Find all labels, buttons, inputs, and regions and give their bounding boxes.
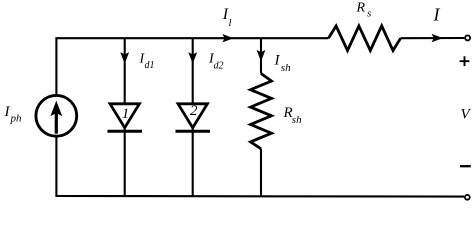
svg-text:1: 1 bbox=[122, 106, 130, 122]
wire diode branch 1 anode bbox=[124, 38, 126, 104]
svg-text:R: R bbox=[356, 1, 366, 16]
diode D1 bbox=[110, 104, 139, 128]
svg-text:I: I bbox=[433, 5, 441, 25]
terminal node top bbox=[465, 35, 470, 40]
svg-text:I: I bbox=[274, 52, 281, 68]
wire shunt branch top bbox=[260, 38, 262, 73]
arrow I output bbox=[432, 34, 443, 42]
svg-text:sh: sh bbox=[292, 114, 302, 126]
svg-text:I: I bbox=[4, 104, 11, 120]
arrow Id1 bbox=[120, 52, 129, 64]
wire bottom rail bbox=[56, 136, 464, 196]
svg-text:sh: sh bbox=[281, 62, 291, 74]
wire top rail left segment bbox=[56, 38, 328, 95]
svg-text:d1: d1 bbox=[145, 60, 155, 71]
svg-text:ph: ph bbox=[10, 113, 23, 125]
arrow Il on top rail bbox=[222, 34, 233, 42]
wire top rail right segment bbox=[401, 37, 465, 39]
wire diode branch 1 cathode bbox=[124, 128, 126, 196]
svg-text:d2: d2 bbox=[214, 60, 224, 71]
resistor Rsh bbox=[251, 74, 272, 149]
current source U1 Iph bbox=[36, 95, 77, 136]
arrow Id2 bbox=[188, 52, 197, 64]
terminal node bottom bbox=[465, 195, 470, 200]
wire shunt branch bottom bbox=[260, 149, 262, 196]
svg-text:2: 2 bbox=[190, 103, 198, 119]
diode D2 bbox=[178, 104, 207, 128]
wire diode branch 2 anode bbox=[192, 38, 194, 104]
arrow Ish bbox=[257, 50, 266, 62]
label minus bbox=[460, 165, 471, 167]
svg-text:V: V bbox=[461, 107, 472, 123]
svg-text:s: s bbox=[367, 8, 371, 20]
wire diode branch 2 cathode bbox=[192, 128, 194, 196]
svg-text:l: l bbox=[229, 17, 232, 29]
label plus bbox=[460, 56, 470, 66]
resistor Rs bbox=[329, 26, 401, 51]
